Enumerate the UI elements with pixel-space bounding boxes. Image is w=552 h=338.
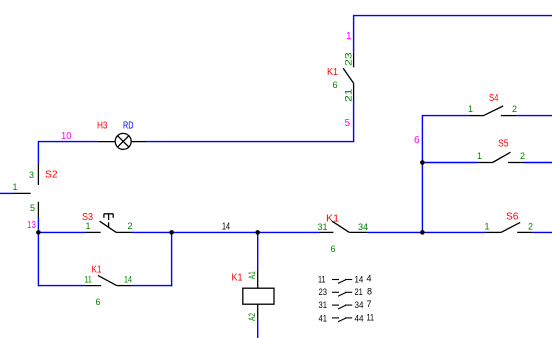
wire S5 row left segment [422,162,477,164]
svg-text:31: 31 [319,300,328,310]
pushbutton S3 [85,214,131,233]
wire main row K1 contact to S6 [367,231,486,233]
svg-text:21: 21 [344,89,354,103]
svg-text:21: 21 [355,287,363,297]
junction node net6 main [420,230,425,235]
svg-text:K1: K1 [326,214,339,225]
wire branch row right segment [132,285,172,287]
wire vertical S2 bottom to branch row [37,217,39,286]
svg-text:44: 44 [355,314,364,324]
svg-text:8: 8 [367,286,372,296]
svg-text:41: 41 [319,314,328,324]
wire S5 row right segment [524,162,552,164]
svg-text:S6: S6 [506,212,519,223]
wire horizontal net 10 lamp row left segment [38,141,98,143]
switch S2 [14,164,38,217]
junction node net6 S5 [420,160,425,165]
wire S4 row left segment [422,115,469,117]
svg-text:11: 11 [85,274,92,284]
switch S5 [477,152,524,162]
svg-text:1: 1 [477,151,482,161]
switch S4 [469,106,516,116]
wire vertical to K1 coil [257,232,259,269]
svg-text:A2: A2 [247,313,257,321]
svg-text:S2: S2 [45,170,58,181]
wire horizontal net 10 lamp row right segment [146,141,355,143]
svg-text:14: 14 [355,275,364,285]
svg-text:H3: H3 [97,121,108,132]
wire main row S3 to K1 contact [132,231,319,233]
svg-text:1: 1 [346,31,352,42]
cross-reference contact symbol row1 [332,280,352,284]
wire main row 13 to S3 [38,231,85,233]
cross-reference contact symbol row2 [332,292,352,296]
wire S4 row right segment [516,115,552,117]
svg-text:14: 14 [124,274,132,284]
svg-text:14: 14 [222,222,230,233]
svg-text:2: 2 [512,104,517,114]
svg-text:31: 31 [318,222,328,232]
svg-text:S5: S5 [498,139,509,150]
svg-text:6: 6 [96,297,101,307]
wire vertical net 6 S4/S5 branch [421,115,423,232]
svg-text:6: 6 [331,244,336,254]
svg-text:2: 2 [128,221,133,231]
svg-text:RD: RD [123,121,134,132]
junction node 13 [36,230,41,235]
contact K1 11-14 [85,275,131,285]
svg-text:2: 2 [520,151,525,161]
wire vertical below K1 coil [257,319,259,338]
svg-text:K1: K1 [232,273,243,284]
wire S2 left stub net 1 [0,192,14,194]
svg-text:1: 1 [86,221,91,231]
svg-text:6: 6 [333,80,338,90]
svg-text:6: 6 [414,135,420,146]
svg-text:34: 34 [358,222,368,232]
svg-text:34: 34 [355,300,364,310]
wire top horizontal net 1 [354,15,552,17]
wire branch row left segment [38,285,85,287]
switch S6 [486,222,533,232]
svg-text:7: 7 [367,299,372,309]
svg-text:A1: A1 [247,271,257,279]
svg-text:23: 23 [319,287,328,297]
svg-text:1: 1 [485,222,490,232]
svg-text:2: 2 [528,222,533,232]
svg-text:10: 10 [61,131,72,142]
svg-text:S4: S4 [489,93,499,104]
wire vertical net 1 into K1 contact [353,15,355,53]
svg-text:11: 11 [367,313,375,323]
junction node S3 branch [169,230,174,235]
svg-text:23: 23 [344,52,354,66]
wire vertical net 5 below K1 contact [353,100,355,142]
wire vertical from S3 junction down [171,232,173,286]
svg-text:13: 13 [27,220,36,231]
svg-text:K1: K1 [327,67,338,78]
svg-text:3: 3 [29,170,34,180]
cross-reference contact symbol row4 [332,318,352,322]
svg-text:5: 5 [345,118,351,129]
wire vertical into S2 top [37,141,39,164]
contact K1 23-21 [343,53,353,100]
coil K1 [243,269,274,319]
svg-text:5: 5 [30,203,35,213]
lamp H3 [98,133,146,149]
svg-text:1: 1 [468,104,473,114]
contact K1 31-34 [319,221,367,232]
wire main row right of S6 [532,231,552,233]
svg-text:K1: K1 [92,265,102,276]
svg-text:11: 11 [318,275,326,285]
cross-reference contact symbol row3 [332,305,352,309]
svg-text:4: 4 [367,274,372,284]
svg-text:1: 1 [13,182,18,192]
junction node 14 coil [255,230,260,235]
